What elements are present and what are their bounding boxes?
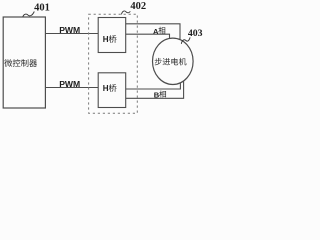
- svg-text:401: 401: [34, 2, 50, 13]
- svg-text:PWM: PWM: [59, 79, 80, 89]
- svg-text:402: 402: [130, 1, 146, 12]
- svg-text:H: H: [103, 35, 109, 44]
- svg-text:B: B: [154, 91, 160, 100]
- svg-text:403: 403: [188, 28, 203, 39]
- svg-text:A: A: [153, 27, 159, 36]
- svg-text:PWM: PWM: [59, 25, 80, 35]
- svg-text:H: H: [103, 84, 109, 93]
